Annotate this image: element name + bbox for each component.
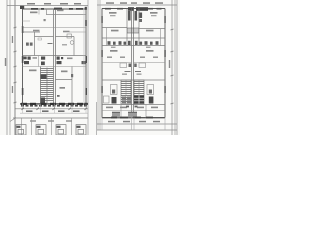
left plan small circle fixture right unit	[70, 41, 74, 45]
left plan right-side extension rail x=84	[83, 9, 85, 104]
left plan top dimension line	[7, 5, 88, 7]
right plan top dimension line	[97, 4, 177, 6]
right plan small labels y=56.5	[107, 57, 158, 58]
right plan hatched box center bottom	[128, 112, 137, 118]
right plan interior wall y=27.5 left	[102, 27, 127, 29]
left dimension rail x=7	[6, 0, 8, 135]
right plan text under wall y=46.5	[111, 47, 116, 48]
left plan faint text row y=120.5	[30, 120, 72, 121]
left plan bottom dimension ticks	[22, 108, 87, 110]
right plan bottom dimension text	[108, 121, 160, 123]
left plan corridor wall x=38.5	[38, 56, 40, 67]
left plan dense dimension text band	[21, 105, 87, 107]
right plan room label mid-right	[146, 30, 154, 32]
left plan party wall (double line)	[53, 9, 55, 104]
right plan room divider x=106.5	[106, 28, 108, 46]
right plan bottom dimension line y=124	[97, 123, 177, 125]
left plan bottom wall window segments	[21, 103, 88, 105]
right plan right side tick marks	[171, 29, 174, 104]
right plan interior wall y=62.5	[102, 62, 132, 64]
left plan stair left wall x=40.5	[40, 67, 42, 104]
right plan side window markers	[101, 16, 166, 93]
left plan stair dark cell top	[41, 75, 47, 80]
left plan left wall window seg y26-33	[22, 26, 24, 33]
right plan bottom room divider x=121	[120, 105, 122, 118]
left plan side window marker left y88	[22, 88, 24, 95]
right plan bottom wall window segments	[111, 117, 153, 119]
right dimension rail x=172	[171, 0, 173, 135]
right plan closet box left	[120, 63, 127, 68]
left plan wall x=34.5	[34, 32, 36, 56]
right plan interior wall y=110.5	[102, 110, 165, 112]
left plan corridor arrow marks	[48, 43, 53, 45]
right plan stair treads right flight	[134, 82, 144, 102]
right plan party wall (double line)	[131, 9, 133, 118]
left plan wall y=36.5 left	[35, 36, 54, 38]
left plan room label mid-right	[63, 31, 70, 33]
sheet background	[0, 0, 180, 135]
right plan bathroom fixtures right	[135, 41, 159, 45]
right plan room label lower-left	[110, 50, 118, 52]
right plan top wall center dark blob	[128, 7, 134, 11]
left plan stair treads	[41, 69, 54, 101]
left plan small box right unit	[67, 34, 72, 38]
right plan toilet dot left	[112, 90, 115, 94]
left plan interior wall y=32 left	[23, 31, 41, 33]
right dimension rail x=175	[174, 0, 176, 135]
right plan room label lower-right	[146, 50, 154, 52]
left plan vestibule wall x=46.5	[46, 9, 48, 15]
left plan right unit wall x=72	[71, 67, 73, 104]
right plan stair right flight outline	[134, 80, 144, 104]
right plan room label mid-left	[111, 30, 119, 32]
left plan right unit wall y=79.5	[56, 79, 73, 81]
lower drawing cubicle divider x=32	[31, 118, 33, 135]
left plan room label lower-left	[29, 70, 37, 72]
lower drawing box 1	[16, 125, 26, 135]
left plan exterior walls	[23, 9, 87, 104]
right plan stair left flight outline	[121, 80, 131, 104]
right plan text row y=107	[106, 107, 158, 109]
left plan top room divider x=39	[38, 9, 40, 15]
left plan wall x=74	[73, 37, 75, 56]
mid rail x=96.5 lower	[96, 102, 98, 135]
right plan interior vertical x=127 top	[126, 9, 128, 46]
left plan small mark left room	[38, 38, 42, 40]
right plan kitchen counters at party wall	[128, 11, 131, 21]
left plan stair dark cell bottom	[41, 98, 46, 104]
left plan bottom wall line	[20, 103, 88, 104]
left dimension rail x=10	[9, 0, 11, 135]
right plan party wall door blobs	[129, 64, 132, 68]
left plan side window marker right y88	[85, 88, 87, 95]
left plan room label top-left	[30, 12, 38, 14]
left plan text right unit mid	[62, 44, 67, 46]
right plan bottom dimension line y=130	[97, 129, 177, 131]
left plan fixture cluster D (near right wall)	[82, 61, 86, 64]
left plan room label lower-right	[61, 71, 68, 73]
right plan stair lower-left cells	[122, 97, 131, 104]
lower drawing box 2	[36, 125, 46, 135]
right plan stair dark lower-right cell	[134, 96, 144, 104]
right plan bottom extension verticals	[102, 118, 165, 131]
right plan toilet right of stair	[147, 85, 154, 95]
left plan sill line y=21	[23, 20, 31, 22]
left plan door mark x=44.5 y=20	[44, 19, 46, 21]
right plan toilet dot right	[149, 90, 152, 94]
left rail rotated dimension text	[5, 36, 13, 93]
left plan bottom dimension text row2	[26, 110, 80, 112]
lower drawing corner diagonal mark	[10, 118, 16, 122]
right plan closet box right	[139, 63, 146, 68]
left plan fixture cluster A (near left wall)	[24, 57, 31, 65]
left plan interior wall y=32 right	[69, 31, 86, 33]
right plan toilet box left lower	[104, 96, 110, 103]
left plan fixture cluster C (party wall right)	[57, 57, 64, 65]
left plan stair center divider	[46, 68, 48, 104]
left plan top dimension text	[27, 3, 81, 5]
right plan interior wall y=38	[102, 37, 165, 39]
left plan right unit label	[60, 87, 66, 89]
left plan top wall window segments	[20, 6, 87, 10]
left plan bottom dimension line y=108.8	[15, 108, 88, 110]
left plan room label top-right	[57, 10, 64, 12]
left plan text between clusters A and B	[33, 57, 38, 59]
right plan room divider x=160.5	[160, 29, 162, 46]
lower drawing ground line	[13, 117, 88, 119]
lower drawing cubicle divider x=52	[51, 118, 53, 135]
left plan interior wall y=55.5	[23, 55, 87, 57]
left plan right unit door blob x=72	[71, 74, 73, 77]
right plan room label top-right	[150, 12, 158, 14]
right plan exterior walls	[102, 9, 165, 118]
left dimension rail x=15	[14, 0, 16, 135]
lower drawing cubicle divider x=72	[71, 118, 73, 135]
right plan interior vertical x=139 top	[138, 9, 140, 46]
left plan bottom faint line y=113.2	[20, 112, 88, 114]
right plan dimension arrows above stair	[125, 71, 142, 73]
right plan dark blob left lower	[112, 97, 117, 104]
right plan toilet left of stair	[111, 85, 118, 95]
right plan dark blob right lower	[149, 97, 154, 104]
right plan stair treads left flight	[121, 82, 131, 102]
left plan interior wall y=66.5	[23, 66, 87, 68]
right plan top wall window segments	[105, 8, 162, 10]
left plan side window marker right y56	[85, 56, 87, 63]
left plan wall y=36.5 right	[56, 36, 75, 38]
right plan interior wall y=80 stair top	[102, 79, 165, 81]
left plan wc fixtures left pair	[26, 43, 29, 46]
left plan interior wall y=27.5	[23, 27, 87, 29]
mid rail x=88 between plans	[87, 0, 89, 135]
left plan fixture cluster B (stair top)	[41, 57, 45, 66]
right dimension rail x=177	[176, 0, 178, 135]
right plan bottom room divider x=146	[145, 105, 147, 118]
left plan text near cluster C	[67, 58, 73, 60]
right plan right rail rotated text	[169, 60, 170, 68]
right plan center dark specks below stair	[126, 106, 129, 108]
left plan wall y=14.5	[47, 14, 87, 16]
right plan stair hatch top center	[127, 28, 139, 33]
lower drawing left extension line	[21, 118, 23, 135]
lower drawing box 3	[56, 125, 66, 135]
right plan stair rail line right	[138, 80, 140, 104]
right plan hatched box left bottom	[112, 112, 120, 118]
left plan room label mid-left	[33, 30, 40, 32]
left plan dim extension verticals	[23, 104, 87, 114]
right plan interior wall y=28.5 right	[139, 28, 165, 30]
right plan stair rail line left	[125, 80, 127, 104]
left plan side window marker left y56	[22, 56, 24, 63]
right plan bathroom fixtures left	[108, 41, 131, 45]
right plan top dimension text	[106, 2, 163, 4]
left plan right unit door dots	[57, 95, 60, 97]
right plan room label top-left	[109, 12, 117, 14]
right plan interior wall y=104.5	[102, 104, 165, 106]
left plan right wall window seg y20-26	[85, 20, 87, 26]
lower drawing box 4	[76, 125, 86, 135]
right plan left rails x=98,100	[97, 0, 99, 130]
left rail tick marks	[14, 27, 17, 103]
right plan interior wall y=45.5	[102, 45, 165, 47]
